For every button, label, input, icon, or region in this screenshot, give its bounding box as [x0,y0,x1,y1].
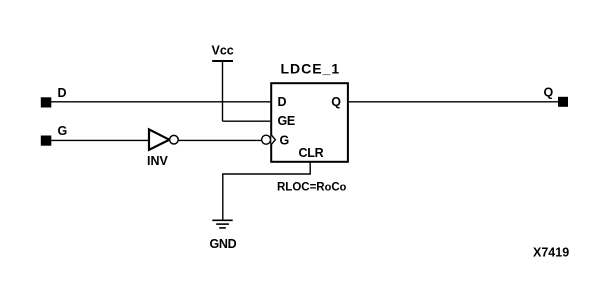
wire D [51,101,270,103]
latch LDCE_1 body [271,83,348,162]
svg-text:G: G [280,133,290,147]
svg-text:Q: Q [544,85,554,99]
wire Vcc vertical to GE [222,61,224,121]
inverter INV [149,129,178,150]
bubble on latch G pin [262,135,276,144]
svg-text:CLR: CLR [299,146,324,160]
terminal D (input pad) [41,97,52,107]
svg-text:GND: GND [210,237,237,251]
wire G to inverter [51,139,149,141]
svg-text:Vcc: Vcc [212,44,234,58]
svg-text:D: D [58,86,67,100]
wire GE horizontal [223,120,271,122]
svg-text:X7419: X7419 [533,245,569,259]
ground GND symbol [212,220,232,228]
svg-text:RLOC=RoCo: RLOC=RoCo [277,182,347,194]
svg-text:D: D [278,95,287,109]
wire inverter output to latch G pin [178,139,261,141]
svg-text:INV: INV [147,154,169,168]
svg-text:G: G [58,124,68,138]
svg-text:LDCE_1: LDCE_1 [281,61,341,77]
wire CLR to ground [223,163,310,220]
terminal Q (output pad) [558,97,568,107]
terminal G (input pad) [41,136,52,146]
svg-text:GE: GE [278,114,295,128]
svg-text:Q: Q [331,95,341,109]
wire Q output [349,101,558,103]
power symbol Vcc [212,44,234,62]
